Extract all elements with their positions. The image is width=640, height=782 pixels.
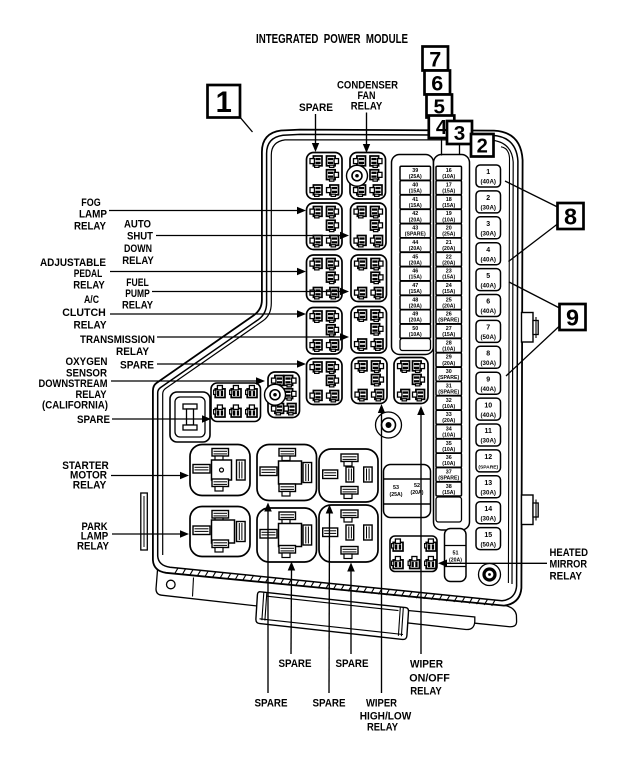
fuse 50 (10A) bbox=[400, 324, 431, 338]
svg-text:(15A): (15A) bbox=[442, 289, 455, 295]
svg-text:(20A): (20A) bbox=[409, 217, 422, 223]
svg-text:A/C: A/C bbox=[84, 294, 99, 306]
svg-text:INTEGRATED POWER MODULE: INTEGRATED POWER MODULE bbox=[256, 32, 408, 46]
svg-text:AUTO: AUTO bbox=[124, 219, 151, 231]
svg-text:(15A): (15A) bbox=[442, 189, 455, 195]
svg-text:RELAY: RELAY bbox=[116, 346, 150, 358]
stud post bottom right bbox=[479, 564, 501, 586]
left side tab bbox=[141, 493, 148, 550]
svg-text:OXYGEN: OXYGEN bbox=[66, 356, 108, 368]
svg-text:PEDAL: PEDAL bbox=[74, 268, 103, 280]
fuse 14 (30A) bbox=[476, 502, 501, 524]
callout 1 bbox=[208, 85, 241, 119]
svg-text:(40A): (40A) bbox=[481, 282, 496, 289]
leader arrow fog lamp relay bbox=[109, 210, 297, 212]
fuse 32 (10A) bbox=[436, 396, 462, 410]
svg-text:(25A): (25A) bbox=[409, 174, 422, 180]
svg-text:SPARE: SPARE bbox=[120, 360, 154, 372]
svg-text:FOG: FOG bbox=[81, 197, 101, 209]
left mounting flange with hole bbox=[156, 570, 475, 630]
fuse empty slot below 50 bbox=[400, 339, 431, 351]
svg-text:(SPARE): (SPARE) bbox=[438, 389, 459, 395]
leader arrow spare row1 right bbox=[350, 572, 352, 655]
svg-text:RELAY: RELAY bbox=[351, 101, 383, 113]
label A/C CLUTCH RELAY bbox=[62, 294, 107, 332]
svg-text:13: 13 bbox=[484, 480, 492, 487]
fuse 47 (15A) bbox=[400, 281, 431, 295]
callout 8 leader to fuse 1 bbox=[505, 181, 558, 207]
right side tab lower bbox=[522, 495, 539, 525]
svg-text:(15A): (15A) bbox=[409, 203, 422, 209]
fuse 18 (15A) bbox=[436, 195, 462, 209]
callout 9 leader to fuse 9 bbox=[506, 326, 560, 376]
fuse 25 (20A) bbox=[436, 295, 462, 309]
svg-text:SPARE: SPARE bbox=[313, 698, 346, 710]
label PARK LAMP RELAY bbox=[77, 521, 110, 553]
svg-text:(15A): (15A) bbox=[442, 490, 455, 496]
fuse 9 (40A) bbox=[476, 372, 501, 394]
leader arrow spare second bbox=[112, 418, 202, 420]
svg-text:(10A): (10A) bbox=[442, 217, 455, 223]
relay spare big top right bbox=[319, 449, 378, 502]
svg-text:(25A): (25A) bbox=[390, 492, 403, 498]
leader arrow wiper on/off relay bbox=[420, 415, 422, 654]
svg-text:(50A): (50A) bbox=[481, 541, 496, 548]
callout 3 leader bbox=[459, 144, 461, 154]
svg-text:DOWN: DOWN bbox=[124, 243, 152, 255]
svg-text:(15A): (15A) bbox=[409, 189, 422, 195]
svg-text:(30A): (30A) bbox=[481, 360, 496, 367]
fuse block 52 53 bbox=[384, 465, 431, 518]
fuse 34 (10A) bbox=[436, 425, 462, 439]
park lamp relay bbox=[190, 507, 250, 557]
label OXYGEN SENSOR DOWNSTREAM RELAY (CALIFORNIA) bbox=[39, 356, 109, 412]
svg-text:7: 7 bbox=[429, 46, 441, 71]
svg-text:(20A): (20A) bbox=[409, 246, 422, 252]
svg-text:52: 52 bbox=[414, 483, 420, 489]
leader arrow spare mid bbox=[157, 363, 297, 365]
relay spare row-e left bbox=[307, 359, 343, 405]
leader arrow wiper high/low relay bbox=[381, 413, 383, 693]
svg-text:(20A): (20A) bbox=[409, 260, 422, 266]
fuse 42 (20A) bbox=[400, 209, 431, 223]
svg-text:1: 1 bbox=[486, 169, 490, 176]
svg-text:(10A): (10A) bbox=[442, 404, 455, 410]
fuse 33 (20A) bbox=[436, 410, 462, 424]
svg-text:(SPARE): (SPARE) bbox=[405, 232, 426, 238]
heated mirror relay block bbox=[390, 536, 437, 572]
svg-text:PUMP: PUMP bbox=[125, 288, 150, 300]
svg-text:(40A): (40A) bbox=[481, 412, 496, 419]
svg-text:3: 3 bbox=[486, 221, 490, 228]
fuse 28 (10A) bbox=[436, 339, 462, 353]
callout 6 bbox=[425, 70, 451, 95]
svg-text:SPARE: SPARE bbox=[77, 414, 110, 426]
fuse 12 (SPARE) bbox=[476, 450, 501, 472]
svg-text:RELAY: RELAY bbox=[74, 221, 107, 233]
fuse 13 (30A) bbox=[476, 476, 501, 498]
svg-text:(10A): (10A) bbox=[442, 174, 455, 180]
svg-text:LAMP: LAMP bbox=[79, 209, 107, 221]
spare fuse puller holder bbox=[170, 392, 210, 442]
fuse 11 (30A) bbox=[476, 424, 501, 446]
svg-text:SPARE: SPARE bbox=[336, 658, 369, 670]
svg-text:15: 15 bbox=[484, 532, 492, 539]
svg-text:(20A): (20A) bbox=[442, 246, 455, 252]
svg-text:(10A): (10A) bbox=[442, 461, 455, 467]
fuse 45 (20A) bbox=[400, 252, 431, 266]
label FOG LAMP RELAY bbox=[74, 197, 107, 233]
fuse 38 (15A) bbox=[436, 482, 462, 496]
bottom rim hatch band bbox=[175, 568, 496, 606]
label HEATED MIRROR RELAY bbox=[550, 547, 589, 583]
fuse 46 (15A) bbox=[400, 267, 431, 281]
fuse 4 (40A) bbox=[476, 243, 501, 265]
leader arrow a/c clutch relay bbox=[110, 313, 297, 315]
oxygen sensor downstream relay (california) bbox=[265, 372, 300, 418]
svg-text:1: 1 bbox=[216, 87, 232, 119]
svg-text:(40A): (40A) bbox=[481, 386, 496, 393]
svg-text:2: 2 bbox=[477, 136, 488, 158]
svg-text:(15A): (15A) bbox=[409, 289, 422, 295]
module body inner outline bbox=[158, 134, 518, 600]
fuse 41 (15A) bbox=[400, 195, 431, 209]
fuse 1 (40A) bbox=[476, 165, 501, 187]
fuse 24 (15A) bbox=[436, 281, 462, 295]
svg-text:TRANSMISSION: TRANSMISSION bbox=[80, 334, 155, 346]
svg-text:WIPER: WIPER bbox=[410, 659, 443, 671]
callout 3 bbox=[447, 121, 472, 145]
fuse 40 (15A) bbox=[400, 181, 431, 195]
svg-text:11: 11 bbox=[485, 428, 493, 435]
fuse 27 (15A) bbox=[436, 324, 462, 338]
svg-text:SHUT: SHUT bbox=[127, 231, 153, 243]
fog lamp relay bbox=[307, 203, 343, 250]
svg-text:SPARE: SPARE bbox=[299, 102, 333, 114]
module inner wall line top right bbox=[501, 147, 510, 583]
svg-text:(25A): (25A) bbox=[442, 232, 455, 238]
fuse 6 (40A) bbox=[476, 295, 501, 317]
svg-text:(CALIFORNIA): (CALIFORNIA) bbox=[42, 400, 108, 412]
module body outer outline bbox=[153, 130, 523, 606]
svg-text:CLUTCH: CLUTCH bbox=[62, 307, 106, 319]
svg-text:RELAY: RELAY bbox=[73, 280, 105, 292]
svg-text:(20A): (20A) bbox=[442, 418, 455, 424]
callout 9 bbox=[560, 304, 586, 330]
leader arrow spare row2 left bbox=[267, 512, 269, 694]
fuse 48 (20A) bbox=[400, 295, 431, 309]
svg-text:SPARE: SPARE bbox=[279, 658, 312, 670]
svg-text:(30A): (30A) bbox=[481, 205, 496, 212]
fuse 29 (20A) bbox=[436, 353, 462, 367]
svg-text:(10A): (10A) bbox=[442, 346, 455, 352]
svg-text:(10A): (10A) bbox=[442, 447, 455, 453]
svg-text:RELAY: RELAY bbox=[410, 686, 442, 698]
fuse 10 (40A) bbox=[476, 398, 501, 420]
relay spare big bottom middle bbox=[257, 508, 317, 562]
fuse 7 (50A) bbox=[476, 320, 501, 342]
fuse 17 (15A) bbox=[436, 181, 462, 195]
svg-text:(15A): (15A) bbox=[442, 203, 455, 209]
label WIPER HIGH/LOW RELAY bbox=[360, 698, 412, 734]
svg-text:RELAY: RELAY bbox=[77, 541, 110, 553]
svg-text:12: 12 bbox=[484, 454, 492, 461]
fuse 2 (30A) bbox=[476, 191, 501, 213]
starter motor relay bbox=[190, 445, 250, 496]
svg-text:8: 8 bbox=[564, 203, 577, 229]
svg-text:9: 9 bbox=[566, 304, 579, 330]
fuse empty slot below 38 bbox=[436, 497, 462, 522]
callout 9 leader to fuse 5 bbox=[509, 282, 560, 308]
label WIPER ON/OFF RELAY bbox=[409, 659, 450, 698]
svg-text:RELAY: RELAY bbox=[74, 320, 108, 332]
fuse 31 (SPARE) bbox=[436, 382, 462, 396]
leader arrow spare row2 mid bbox=[328, 514, 331, 694]
bottom pull-out tray bbox=[256, 592, 409, 640]
module body third outline line bbox=[271, 140, 513, 584]
fuse 8 (30A) bbox=[476, 346, 501, 368]
svg-text:RELAY: RELAY bbox=[73, 480, 107, 492]
svg-text:8: 8 bbox=[486, 351, 490, 358]
fuse bank enclosure left column bbox=[392, 155, 434, 355]
svg-text:(20A): (20A) bbox=[442, 361, 455, 367]
leader arrow heated mirror relay bbox=[447, 562, 547, 564]
leader arrow auto shut down relay bbox=[156, 235, 340, 237]
fuse 23 (15A) bbox=[436, 267, 462, 281]
callout 1 leader bbox=[240, 117, 253, 132]
fuse 43 (SPARE) bbox=[400, 224, 431, 238]
svg-text:(15A): (15A) bbox=[409, 275, 422, 281]
wiper on/off relay block bbox=[394, 358, 428, 404]
relay spare big bottom right bbox=[319, 505, 378, 562]
svg-text:6: 6 bbox=[431, 70, 443, 95]
fuse 5 (40A) bbox=[476, 269, 501, 291]
leader arrow spare top bbox=[315, 114, 317, 143]
relay spare top bbox=[307, 153, 343, 200]
fuse 30 (SPARE) bbox=[436, 367, 462, 381]
svg-text:(50A): (50A) bbox=[481, 334, 496, 341]
fuse 19 (10A) bbox=[436, 209, 462, 223]
svg-text:7: 7 bbox=[486, 325, 490, 332]
svg-text:(20A): (20A) bbox=[411, 490, 424, 496]
svg-text:(SPARE): (SPARE) bbox=[438, 476, 459, 482]
leader arrow condenser fan relay bbox=[366, 113, 368, 145]
bottom right skirt below corner bbox=[475, 606, 517, 627]
leader arrow starter motor relay bbox=[111, 475, 180, 477]
leader arrow transmission relay bbox=[157, 336, 340, 338]
relay spare big top middle bbox=[257, 445, 317, 501]
svg-text:4: 4 bbox=[486, 247, 490, 254]
condenser fan relay bbox=[347, 153, 386, 200]
fuse 3 (30A) bbox=[476, 217, 501, 239]
svg-text:(10A): (10A) bbox=[442, 433, 455, 439]
svg-text:ON/OFF: ON/OFF bbox=[409, 673, 450, 685]
fuse 51 (20A) bbox=[445, 529, 467, 582]
svg-text:(20A): (20A) bbox=[442, 303, 455, 309]
fuse 15 (50A) bbox=[476, 528, 501, 550]
svg-text:RELAY: RELAY bbox=[367, 722, 399, 734]
fuse bank enclosure middle column bbox=[434, 155, 470, 531]
fuse 36 (10A) bbox=[436, 453, 462, 467]
svg-text:(20A): (20A) bbox=[442, 260, 455, 266]
svg-text:(15A): (15A) bbox=[442, 332, 455, 338]
callout 2 bbox=[471, 134, 494, 158]
svg-text:(SPARE): (SPARE) bbox=[438, 375, 459, 381]
svg-text:RELAY: RELAY bbox=[122, 300, 154, 312]
a/c clutch relay bbox=[307, 308, 343, 355]
svg-text:RELAY: RELAY bbox=[550, 571, 583, 583]
fuse 35 (10A) bbox=[436, 439, 462, 453]
fuse 39 (25A) bbox=[400, 166, 431, 180]
svg-text:(30A): (30A) bbox=[481, 438, 496, 445]
svg-text:(30A): (30A) bbox=[481, 231, 496, 238]
fuse 37 (SPARE) bbox=[436, 468, 462, 482]
svg-text:(SPARE): (SPARE) bbox=[478, 465, 498, 471]
stud post center bbox=[376, 412, 402, 438]
right side tab upper bbox=[522, 313, 539, 343]
fuse 26 (SPARE) bbox=[436, 310, 462, 324]
svg-text:RELAY: RELAY bbox=[122, 255, 154, 267]
fuse 21 (20A) bbox=[436, 238, 462, 252]
svg-text:(15A): (15A) bbox=[442, 275, 455, 281]
label FUEL PUMP RELAY bbox=[122, 277, 154, 312]
svg-text:(30A): (30A) bbox=[481, 490, 496, 497]
svg-text:(40A): (40A) bbox=[481, 179, 496, 186]
leader arrow adjustable pedal relay bbox=[110, 271, 297, 273]
svg-text:3: 3 bbox=[454, 122, 466, 145]
svg-text:(20A): (20A) bbox=[409, 318, 422, 324]
svg-text:5: 5 bbox=[486, 273, 490, 280]
callout 8 bbox=[558, 203, 584, 229]
fuse 20 (25A) bbox=[436, 224, 462, 238]
svg-text:(20A): (20A) bbox=[449, 558, 462, 564]
spare 6-pin block bbox=[211, 383, 261, 422]
svg-text:HEATED: HEATED bbox=[550, 547, 589, 559]
wiper high/low relay block bbox=[352, 358, 388, 404]
label ADJUSTABLE PEDAL RELAY bbox=[40, 257, 106, 292]
svg-text:51: 51 bbox=[453, 551, 459, 557]
fuse 49 (20A) bbox=[400, 310, 431, 324]
svg-text:(SPARE): (SPARE) bbox=[438, 318, 459, 324]
callout 8 leader to fuse 4 bbox=[509, 224, 558, 262]
svg-text:WIPER: WIPER bbox=[366, 698, 397, 710]
callout 4 leader bbox=[441, 138, 443, 156]
callout 5 bbox=[427, 95, 453, 119]
svg-text:9: 9 bbox=[486, 376, 490, 383]
svg-text:(10A): (10A) bbox=[409, 332, 422, 338]
svg-text:10: 10 bbox=[484, 402, 492, 409]
leader arrow spare row1 left bbox=[290, 571, 293, 655]
fuel pump relay bbox=[351, 255, 387, 302]
svg-text:(30A): (30A) bbox=[481, 515, 496, 522]
leader arrow fuel pump relay bbox=[152, 291, 340, 293]
transmission relay bbox=[351, 307, 387, 354]
svg-text:(40A): (40A) bbox=[481, 256, 496, 263]
fuse 44 (20A) bbox=[400, 238, 431, 252]
label AUTO SHUT DOWN RELAY bbox=[122, 219, 154, 268]
label TRANSMISSION RELAY bbox=[80, 334, 155, 358]
svg-text:MIRROR: MIRROR bbox=[550, 559, 588, 571]
svg-text:(40A): (40A) bbox=[481, 308, 496, 315]
label CONDENSER FAN RELAY bbox=[337, 80, 398, 113]
auto shut down relay bbox=[351, 203, 387, 250]
svg-text:53: 53 bbox=[393, 485, 399, 491]
label STARTER MOTOR RELAY bbox=[62, 460, 109, 492]
svg-text:(20A): (20A) bbox=[409, 303, 422, 309]
callout 4 bbox=[429, 116, 455, 140]
svg-text:2: 2 bbox=[486, 195, 490, 202]
fuse 22 (20A) bbox=[436, 252, 462, 266]
svg-text:6: 6 bbox=[486, 299, 490, 306]
leader arrow park lamp relay bbox=[112, 533, 180, 535]
svg-text:SPARE: SPARE bbox=[255, 698, 288, 710]
adjustable pedal relay bbox=[307, 255, 343, 302]
callout 7 bbox=[423, 46, 449, 71]
fuse 16 (10A) bbox=[436, 166, 462, 180]
leader arrow oxygen sensor relay bbox=[111, 380, 256, 382]
svg-text:14: 14 bbox=[484, 506, 492, 513]
